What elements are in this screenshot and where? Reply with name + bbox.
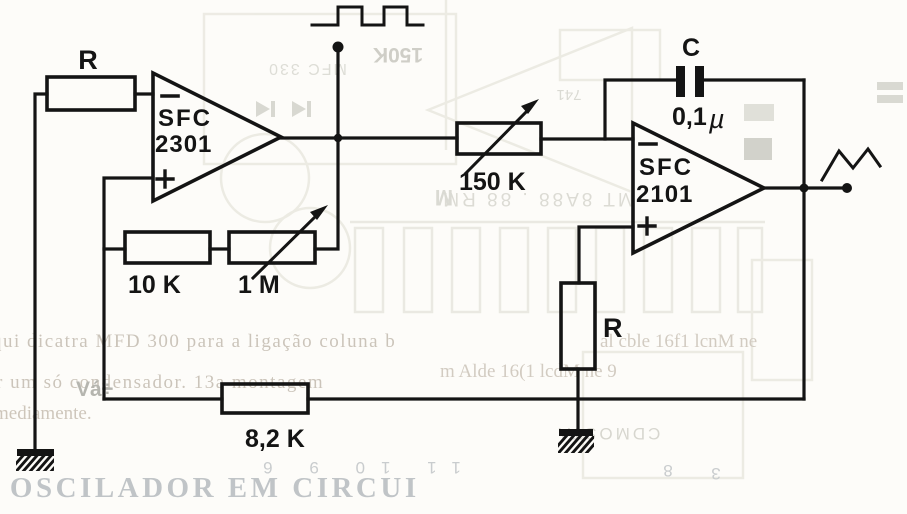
node output U1 (334, 134, 342, 142)
resistor 10K (125, 232, 210, 263)
wire from R1 left down to ground (35, 94, 47, 451)
svg-text:qui dicatra MFD 300 para a lig: qui dicatra MFD 300 para a ligação colun… (0, 331, 396, 352)
wire U1 plus input to left vertical (104, 178, 153, 399)
wire 10K to 1M (210, 247, 229, 250)
svg-text:M: M (435, 185, 453, 210)
wire U2 plus input down to R2 (579, 227, 633, 283)
svg-text:MFC 330: MFC 330 (267, 60, 347, 77)
svg-text:C: C (682, 34, 700, 62)
square wave symbol (312, 7, 423, 25)
svg-text:8: 8 (663, 461, 672, 480)
svg-text:150K: 150K (373, 43, 423, 66)
potentiometer 1M (229, 232, 315, 263)
svg-text:2101: 2101 (636, 181, 693, 208)
U2 plus sign (639, 218, 655, 234)
wire riser to capacitor C (605, 80, 676, 139)
svg-text:R: R (78, 45, 98, 75)
wire 8,2K to output vertical (308, 397, 804, 400)
svg-text:3: 3 (711, 464, 720, 483)
svg-text:SFC: SFC (158, 105, 212, 132)
svg-text:0,1: 0,1 (672, 103, 707, 131)
svg-text:m Alde 16(1 lcdM ne 9: m Alde 16(1 lcdM ne 9 (440, 361, 617, 382)
wire U2 output (764, 186, 847, 189)
op-amp U2 (633, 123, 764, 253)
U1 plus sign (157, 171, 173, 187)
svg-text:8,2 K: 8,2 K (245, 425, 305, 453)
wire R1 to op-amp U1 minus input (135, 92, 153, 95)
wire R2 to ground (576, 369, 579, 430)
svg-text:150 K: 150 K (459, 168, 526, 196)
resistor R1 (47, 77, 135, 110)
ghost diode marks (256, 101, 311, 117)
op-amp U1 (153, 73, 281, 201)
U2 minus sign (640, 142, 656, 146)
wire U1 output to 150K (281, 136, 457, 139)
wire vertical from square node through output down to 1M (315, 48, 338, 249)
ghost big rectangles / lines upper area (204, 0, 812, 478)
wire capacitor to output vertical (704, 78, 804, 81)
triangle wave symbol (822, 149, 880, 180)
node square wave tap (333, 42, 344, 53)
svg-text:- OSCILADOR EM CIRCUI: - OSCILADOR EM CIRCUI (0, 472, 420, 504)
ground (right) (548, 429, 604, 457)
svg-text:mediamente.: mediamente. (0, 403, 92, 424)
potentiometer 150K (457, 123, 541, 154)
wire 150K to U2 minus input (541, 137, 633, 140)
capacitor C (676, 66, 704, 97)
wire left vertical to 10K (104, 247, 125, 250)
resistor 8,2K (222, 384, 308, 413)
svg-text:1 M: 1 M (238, 271, 280, 299)
node output terminal (842, 183, 852, 193)
svg-text:SFC: SFC (639, 154, 693, 181)
svg-text:2301: 2301 (155, 131, 212, 158)
ground (left) (6, 449, 69, 475)
arrow of 1M (253, 205, 328, 278)
wire output vertical feedback (802, 80, 805, 399)
ghost gray blocks right (744, 104, 774, 121)
svg-text:10 K: 10 K (128, 271, 181, 299)
ghost pin rectangles row (IC package show-through) (350, 222, 765, 312)
svg-text:al cble 16f1 lcnM ne: al cble 16f1 lcnM ne (600, 331, 757, 352)
node feedback junction (800, 184, 809, 193)
svg-text:µ: µ (708, 104, 725, 134)
wire bottom feedback rail (104, 397, 222, 400)
U1 minus sign (162, 94, 178, 98)
svg-text:R: R (603, 313, 623, 343)
resistor R2 (561, 283, 595, 369)
svg-text:741: 741 (556, 86, 581, 103)
arrow of 150K (466, 99, 539, 173)
